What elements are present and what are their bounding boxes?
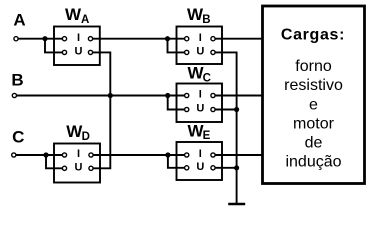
label W_D [66, 122, 90, 143]
wire WE voltage tap loop [168, 155, 187, 168]
wire WC voltage tap loop [168, 96, 187, 110]
svg-text:I: I [199, 89, 202, 101]
svg-text:A: A [81, 14, 89, 26]
wire phase A: source terminal to WA [16, 38, 65, 40]
node WA/WD U on phase B [108, 93, 113, 98]
pin WE U-right [211, 166, 215, 170]
node WE tap on phase C [165, 152, 170, 157]
pin WE U-left [185, 166, 189, 170]
terminal phase C source [12, 153, 16, 157]
svg-text:U: U [75, 46, 83, 58]
terminal phase B source [12, 93, 16, 97]
pin WB U-right [211, 50, 215, 54]
pin WA I-right [88, 37, 92, 41]
wire WA voltage tap loop [45, 39, 65, 53]
svg-text:W: W [65, 5, 82, 24]
wire phase A: WA to WB [91, 38, 187, 40]
wire phase C: WE to load [213, 154, 263, 156]
pin WC I-left [185, 93, 189, 97]
svg-text:I: I [77, 148, 80, 160]
node WD tap on phase C [43, 152, 48, 157]
svg-text:C: C [203, 73, 211, 85]
wire phase B: source terminal to WC [14, 95, 186, 97]
label W_C [188, 64, 211, 85]
svg-text:e: e [309, 97, 318, 114]
wire WA-U to phase B to WD-U vertical [91, 52, 111, 168]
svg-text:U: U [196, 103, 204, 115]
pin WA U-right [88, 50, 92, 54]
wire WB voltage tap loop [168, 39, 187, 53]
wire phase C: source terminal to WD [14, 154, 65, 156]
pin WD U-right [89, 166, 93, 170]
terminal phase A source [14, 37, 18, 41]
wire WE-U to ground node [213, 167, 237, 169]
pin WB U-left [185, 50, 189, 54]
svg-text:motor: motor [293, 116, 335, 133]
wire WC-U to ground node [213, 109, 237, 111]
svg-text:A: A [13, 10, 25, 29]
pin WC U-right [211, 107, 215, 111]
pin WB I-right [211, 37, 215, 41]
pin WD I-left [62, 153, 66, 157]
wattmeter W_E box [177, 142, 223, 180]
svg-text:I: I [199, 148, 202, 160]
pin WA U-left [62, 50, 66, 54]
svg-text:I: I [199, 32, 202, 44]
svg-text:resistivo: resistivo [284, 77, 343, 94]
pin WD U-left [62, 166, 66, 170]
pin WC U-left [185, 107, 189, 111]
pin WE I-right [211, 153, 215, 157]
node WC tap on phase B [165, 93, 170, 98]
node WE-U on ground line [234, 165, 239, 170]
svg-text:indução: indução [285, 154, 341, 171]
node WC-U on ground line [234, 107, 239, 112]
svg-text:I: I [77, 32, 80, 44]
wattmeter W_B box [177, 27, 223, 65]
node WB tap on phase A [165, 36, 170, 41]
svg-text:Cargas:: Cargas: [281, 27, 345, 44]
wattmeter W_D box [54, 144, 100, 183]
pin WE I-left [185, 153, 189, 157]
svg-text:de: de [305, 135, 323, 152]
label W_E [188, 121, 211, 142]
pin terminals (white circles) [12, 37, 215, 171]
wattmeter W_C box [177, 84, 223, 123]
pin WA I-left [62, 37, 66, 41]
wire WD voltage tap loop [46, 155, 65, 168]
pin WD I-right [89, 153, 93, 157]
svg-text:forno: forno [295, 58, 332, 75]
svg-text:B: B [202, 14, 210, 26]
svg-text:E: E [203, 130, 211, 142]
wattmeter W_A box [54, 27, 100, 66]
pin WB I-left [185, 37, 189, 41]
svg-text:D: D [82, 131, 90, 143]
wire phase B: WC to load [213, 95, 263, 97]
pin WC I-right [211, 93, 215, 97]
svg-text:U: U [196, 46, 204, 58]
ground [228, 203, 245, 205]
svg-text:U: U [196, 161, 204, 173]
node WA tap on phase A [42, 36, 47, 41]
load box Cargas [263, 6, 365, 184]
wire phase A: WB to load [213, 38, 263, 40]
svg-text:U: U [75, 162, 83, 174]
label W_B [187, 5, 211, 26]
svg-text:B: B [11, 71, 23, 90]
label W_A [65, 5, 89, 26]
svg-text:C: C [12, 127, 24, 146]
wire phase C: WD to WE [91, 154, 187, 156]
wire WB-U down to ground node [213, 52, 237, 204]
label load description [284, 58, 343, 171]
